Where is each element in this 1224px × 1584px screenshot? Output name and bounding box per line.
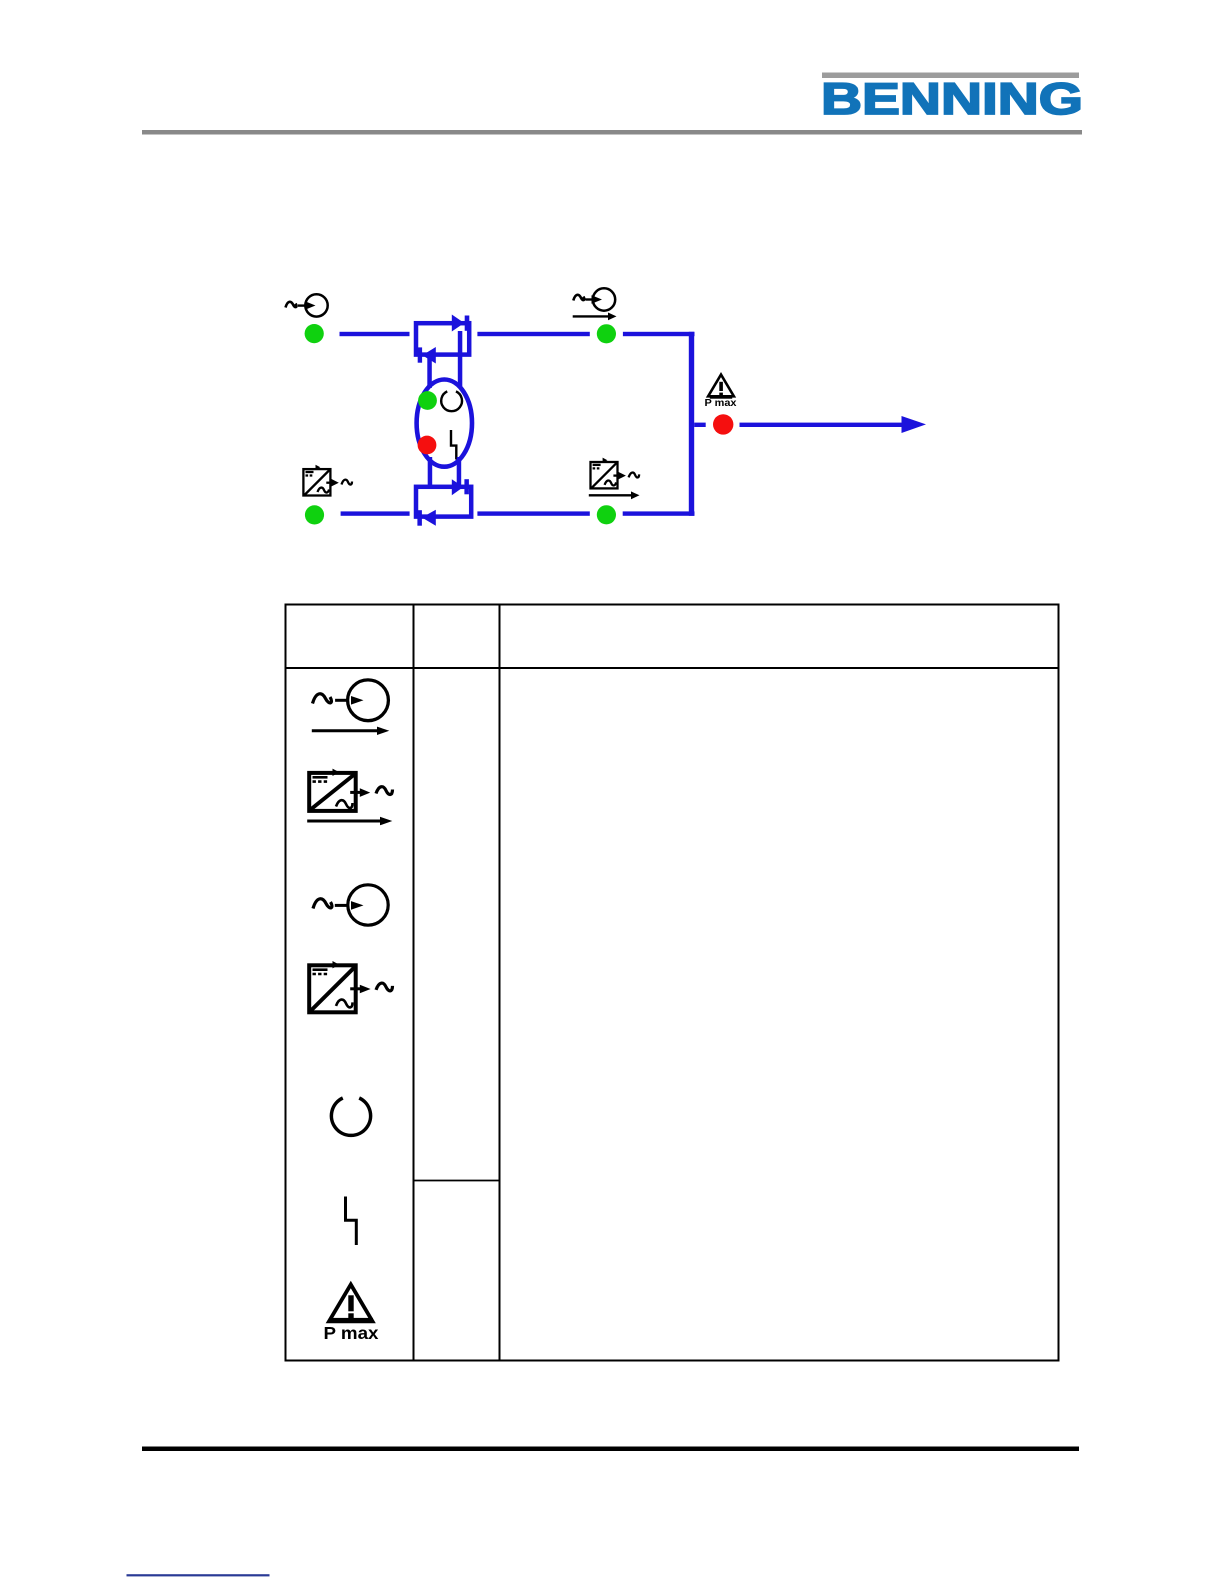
wire: inverter LED to bottom box: [341, 511, 410, 515]
legend row3: mains supply (no arrow): [313, 885, 388, 925]
wire: oval to bottom box (right leg): [457, 457, 462, 488]
black interrupt symbol inside oval: [451, 430, 456, 460]
wire: top box to top-middle dot: [477, 332, 589, 336]
bottom box diode left: [422, 510, 436, 526]
table column divider 1: [413, 605, 415, 1361]
inverter top tick (bottom-middle): [603, 458, 608, 463]
top box diode right: [452, 315, 464, 332]
inverter underline arrow (bottom-middle): [589, 494, 633, 496]
svg-text:P max: P max: [705, 397, 737, 409]
wire: bottom box to middle green dot: [477, 511, 589, 515]
red LED: output: [713, 414, 733, 434]
legend row1: mains supply with power flow arrow: [312, 680, 389, 731]
legend row2: inverter with power flow arrow: [309, 773, 356, 811]
output stub wire: [694, 423, 706, 427]
inverter symbol (bottom-left): [303, 469, 352, 495]
inverter top tick (bottom-left): [316, 465, 321, 470]
bottom box diode right: [452, 479, 464, 495]
legend row4: inverter (no arrow): [309, 965, 356, 1012]
green LED: top-middle: [597, 324, 616, 343]
rectifier/charger box (bottom): [416, 487, 471, 517]
wire: bypass input to static switch: [340, 332, 410, 336]
inverter symbol (bottom-middle): [591, 462, 640, 488]
svg-text:P max: P max: [324, 1323, 379, 1343]
legend row5: open circle arc: [331, 1098, 370, 1135]
battery/converter oval: [417, 380, 472, 467]
footer black line: [142, 1447, 1079, 1452]
table header divider: [286, 667, 1059, 669]
wire: top box to battery block (right leg): [458, 331, 463, 388]
wire: top box to battery block (left leg): [427, 356, 432, 388]
mains supply symbol (top-middle) with underline: [573, 288, 616, 316]
logo top gray bar: [822, 73, 1079, 79]
mains supply symbol (top-left): sine source feeding circle: [286, 294, 328, 316]
output wire with arrow: [740, 423, 905, 427]
warning triangle P max (diagram): [708, 375, 734, 397]
top-middle underline arrowhead: [608, 313, 617, 321]
header gray separator line: [142, 130, 1082, 135]
inverter output arrowhead (bottom-middle): [618, 472, 626, 480]
green LED: inverter output (bottom-left): [305, 505, 324, 524]
right bus vertical wire: [689, 332, 694, 516]
table outer border: [286, 605, 1059, 1361]
green LED: bottom-middle output: [597, 505, 616, 524]
legend row6: interrupt symbol: [346, 1197, 357, 1246]
wire: oval to bottom box (left leg): [428, 457, 433, 488]
red LED inside oval: [418, 436, 437, 455]
black arc symbol inside oval: [441, 391, 462, 411]
mains arrowhead (top-left): [305, 301, 316, 310]
table middle-column row divider: [414, 1180, 500, 1182]
footer navy link line: [127, 1574, 270, 1576]
table column divider 2: [499, 605, 501, 1361]
inverter output arrowhead (bottom-left): [331, 479, 339, 487]
green LED inside oval: [418, 391, 437, 410]
green LED: bypass mains input: [305, 324, 324, 343]
static bypass switch box (top): [416, 323, 469, 354]
svg-text:BENNING: BENNING: [821, 75, 1083, 124]
top box diode left: [422, 347, 436, 364]
legend row7: warning triangle P max: [329, 1285, 373, 1322]
top-middle arrowhead into circle: [592, 295, 603, 304]
wire: top-middle dot to right bus: [623, 332, 695, 336]
wire: bottom-middle dot to right bus: [623, 511, 695, 515]
